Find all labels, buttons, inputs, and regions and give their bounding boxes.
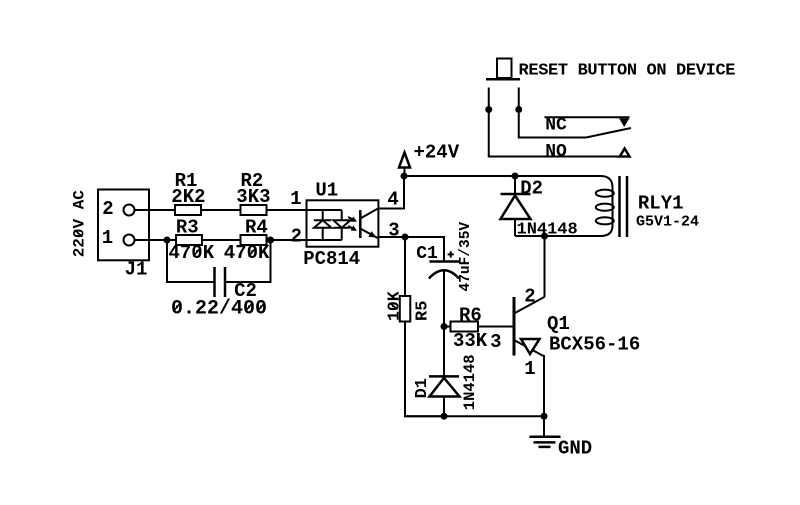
ground — [530, 416, 593, 459]
svg-text:RESET BUTTON ON DEVICE: RESET BUTTON ON DEVICE — [519, 62, 736, 81]
wire J1 pin1 to R3 — [135, 239, 177, 241]
resistor R6 — [451, 305, 488, 353]
wire C2 left branch — [167, 240, 215, 282]
diode D2 1N4148 — [501, 176, 578, 240]
svg-text:2: 2 — [524, 286, 535, 308]
wire R3 to R4 — [202, 239, 241, 241]
node dot left C2 tap — [164, 237, 171, 244]
svg-text:1: 1 — [290, 188, 301, 210]
transistor Q1 BCX56-16 — [514, 286, 640, 417]
svg-text:J1: J1 — [125, 259, 148, 281]
svg-text:BCX56-16: BCX56-16 — [549, 333, 640, 355]
svg-text:470K: 470K — [169, 242, 215, 264]
node dot left contact — [485, 106, 492, 113]
switch lever — [586, 128, 631, 138]
U1 LED right (cathode down) — [333, 220, 350, 228]
svg-text:NO: NO — [545, 142, 567, 162]
wire R5 bottom to ground rail — [405, 322, 444, 417]
node dot collector tap — [541, 233, 548, 240]
supply symbol +24V — [399, 142, 460, 175]
capacitor C2 — [171, 267, 267, 321]
connector J1 — [98, 190, 149, 281]
svg-text:470K: 470K — [224, 242, 270, 264]
svg-text:3: 3 — [490, 331, 501, 353]
svg-text:2: 2 — [291, 226, 302, 248]
node dot right contact — [515, 106, 522, 113]
wire button left contact — [489, 88, 620, 157]
svg-text:220V AC: 220V AC — [71, 190, 89, 258]
node dot right C2 tap — [267, 237, 274, 244]
wire node to R6 — [444, 326, 451, 328]
svg-text:C1: C1 — [416, 244, 438, 264]
wire J1 pin2 to R1 — [135, 209, 176, 211]
U1 LED left (cathode up) — [314, 220, 332, 228]
svg-text:1: 1 — [524, 358, 535, 380]
svg-text:2K2: 2K2 — [171, 186, 205, 208]
svg-text:33K: 33K — [453, 330, 488, 352]
svg-text:3: 3 — [388, 220, 399, 242]
svg-text:47uF/35V: 47uF/35V — [458, 222, 474, 292]
wire U1 pin3 — [378, 236, 406, 238]
U1 LED pair rails — [307, 210, 342, 240]
NO contact — [545, 142, 629, 162]
wire R4 to U1 pin2 — [267, 239, 307, 241]
node dot +24V — [401, 173, 408, 180]
svg-text:G5V1-24: G5V1-24 — [636, 214, 699, 231]
node dot U1 pin3 — [402, 234, 409, 241]
resistor R1 — [171, 170, 205, 215]
svg-text:R6: R6 — [459, 305, 482, 327]
wire R6 to Q1 base — [478, 326, 514, 328]
wire relay bottom to D2 bottom — [515, 235, 601, 237]
svg-text:GND: GND — [558, 438, 592, 460]
U1 phototransistor — [360, 209, 377, 238]
NC contact — [545, 116, 630, 136]
svg-text:Q1: Q1 — [547, 313, 570, 335]
wire button right contact — [519, 88, 586, 138]
relay RLY1 coil — [596, 176, 699, 237]
svg-text:NC: NC — [545, 116, 567, 136]
node dot emitter/ground — [541, 413, 548, 420]
svg-text:R4: R4 — [245, 217, 268, 239]
wire ground rail — [405, 415, 544, 417]
wire R1 to R2 — [201, 209, 241, 211]
node dot D1 bottom — [441, 413, 448, 420]
wire down to Q1 collector — [544, 236, 546, 297]
svg-text:2: 2 — [102, 198, 113, 220]
wire D1 top — [443, 327, 445, 377]
resistor R4 — [224, 217, 270, 265]
svg-text:R3: R3 — [176, 217, 199, 239]
svg-text:D1: D1 — [413, 378, 432, 398]
svg-text:U1: U1 — [315, 180, 338, 202]
wire pin3 node down to R5 — [404, 237, 406, 296]
wire U1 pin4 to +24V node — [378, 176, 405, 209]
node dot R6/C1/D1 — [441, 323, 448, 330]
capacitor C1 47uF/35V — [416, 222, 474, 292]
svg-text:1N4148: 1N4148 — [461, 354, 479, 410]
node dot D2 top — [512, 173, 519, 180]
wire C1 bottom to R6 node — [443, 272, 445, 327]
wire pin3 node to C1 — [405, 237, 444, 262]
svg-text:RLY1: RLY1 — [638, 193, 684, 215]
svg-text:4: 4 — [387, 189, 398, 211]
U1 light arrows — [347, 214, 359, 224]
svg-text:1: 1 — [102, 227, 113, 249]
svg-text:PC814: PC814 — [303, 248, 360, 270]
reset button — [486, 59, 736, 81]
svg-text:D2: D2 — [520, 178, 543, 200]
svg-text:0.22/400: 0.22/400 — [171, 298, 267, 321]
diode D1 1N4148 — [413, 354, 479, 416]
op-amp U1 optocoupler PC814 — [290, 180, 400, 271]
net label 220V AC — [71, 190, 89, 258]
svg-text:+24V: +24V — [414, 142, 460, 164]
resistor R3 — [169, 217, 215, 265]
wire R2 to U1 pin1 — [267, 209, 307, 211]
svg-text:3K3: 3K3 — [236, 186, 270, 208]
resistor R2 — [236, 170, 270, 215]
wire +24V rail — [404, 175, 601, 177]
svg-text:R5: R5 — [414, 301, 433, 321]
resistor R5 — [385, 291, 433, 321]
wire C2 right branch — [225, 240, 271, 282]
